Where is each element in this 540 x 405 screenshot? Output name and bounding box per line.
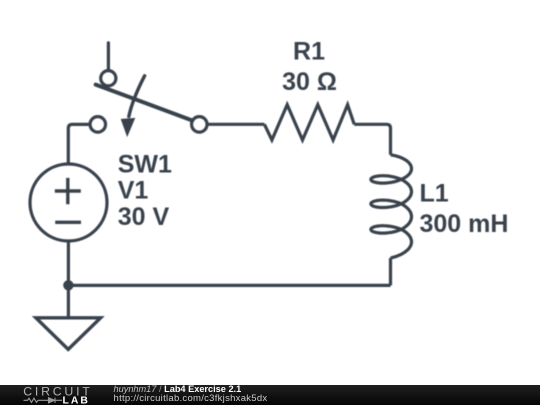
svg-text:SW1: SW1: [118, 151, 172, 179]
voltage source V1 circle: [30, 164, 107, 241]
svg-text:V1: V1: [118, 177, 149, 205]
switch SW1 right terminal circle: [192, 117, 208, 132]
V1 plus sign: [55, 178, 81, 204]
svg-text:30 Ω: 30 Ω: [282, 68, 337, 96]
switch SW1 blade: [96, 85, 193, 121]
V1 minus sign: [55, 221, 81, 224]
switch SW1 actuation arrow curve: [129, 76, 145, 117]
wire: ground stub: [67, 285, 70, 317]
switch SW1 left terminal circle: [90, 117, 106, 132]
wire: resistor to top-right corner down to inductor: [354, 124, 390, 155]
wire: switch right terminal to resistor: [207, 123, 264, 126]
CircuitLab logo: [0, 385, 110, 405]
svg-text:300 mH: 300 mH: [420, 210, 509, 238]
wire: switch top stub: [107, 43, 110, 71]
node: junction dot at ground: [63, 280, 73, 290]
resistor R1: [264, 105, 354, 140]
switch SW1 top terminal circle: [101, 71, 116, 86]
footer bar: [0, 385, 540, 405]
svg-text:R1: R1: [293, 38, 325, 66]
svg-text:L1: L1: [420, 179, 449, 207]
svg-text:30 V: 30 V: [118, 203, 170, 231]
switch SW1 arrowhead: [121, 118, 134, 135]
svg-text:LAB: LAB: [62, 396, 89, 405]
wire: voltage source bottom to ground node: [67, 241, 70, 285]
footer text line 1: [114, 385, 242, 394]
footer text line 2: [114, 394, 268, 404]
wire: switch left terminal to voltage source top: [68, 124, 90, 163]
wire: bottom rail (node to inductor bottom): [68, 284, 390, 287]
inductor L1 coil: [371, 155, 412, 258]
ground symbol: [36, 318, 101, 350]
wire: inductor bottom stub: [389, 258, 392, 285]
